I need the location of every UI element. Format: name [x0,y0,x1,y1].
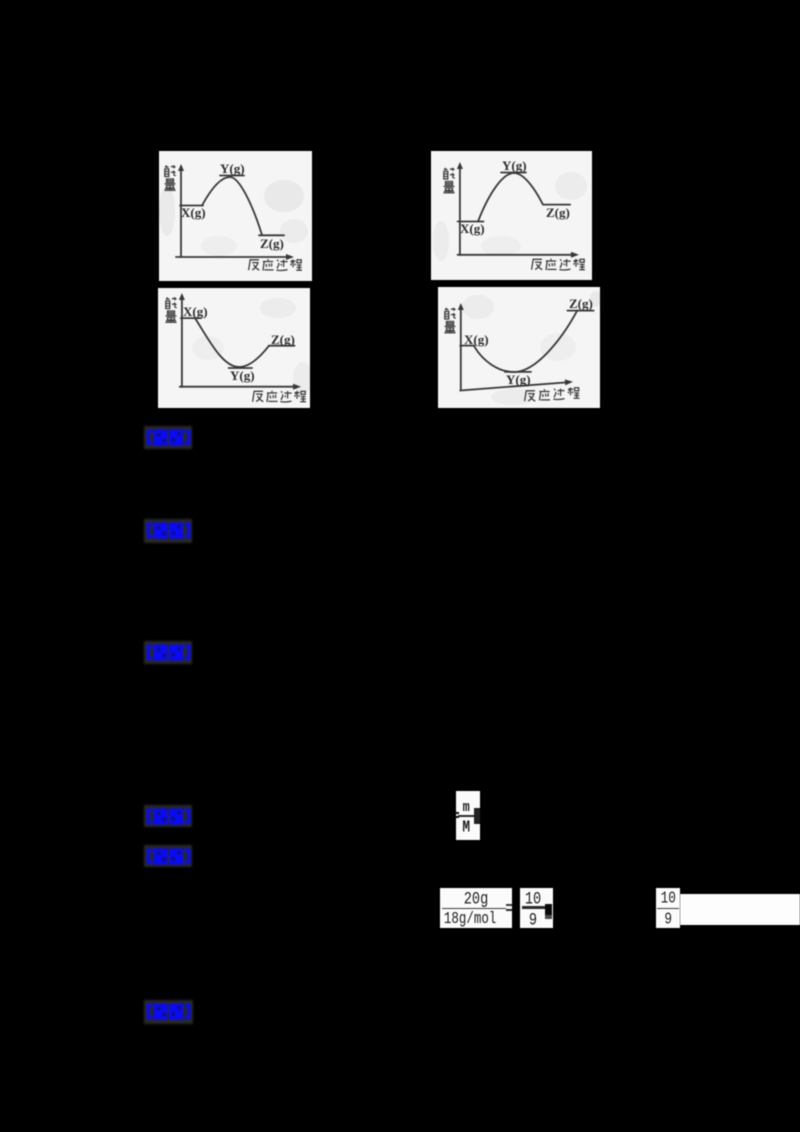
svg-text:X(g): X(g) [460,221,485,236]
svg-text:Z(g): Z(g) [546,205,570,220]
svg-text:Z(g): Z(g) [569,296,593,311]
svg-text:X(g): X(g) [183,304,208,319]
svg-text:Y(g): Y(g) [502,158,527,173]
svg-text:Y(g): Y(g) [220,161,245,176]
svg-text:X(g): X(g) [181,205,206,220]
svg-text:Z(g): Z(g) [260,236,284,251]
svg-text:Z(g): Z(g) [271,332,295,347]
svg-text:Y(g): Y(g) [506,372,531,387]
svg-text:Y(g): Y(g) [230,368,255,383]
svg-text:X(g): X(g) [464,332,489,347]
